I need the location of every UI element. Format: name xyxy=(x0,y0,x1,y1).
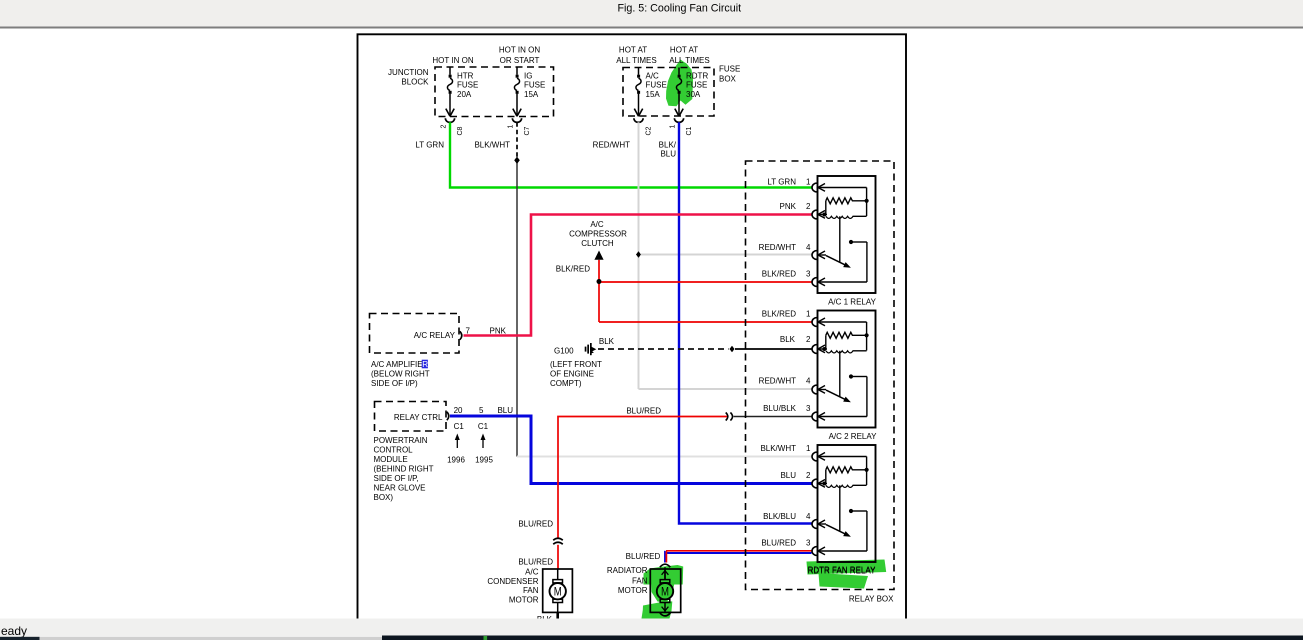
svg-text:MOTOR: MOTOR xyxy=(509,595,539,604)
svg-text:FUSE: FUSE xyxy=(719,65,740,74)
svg-text:BLU: BLU xyxy=(780,471,796,480)
svg-text:FAN: FAN xyxy=(632,577,648,586)
svg-text:C2: C2 xyxy=(645,126,652,135)
relay RDTR FAN xyxy=(812,445,876,562)
svg-text:RDTR FAN RELAY: RDTR FAN RELAY xyxy=(808,565,877,574)
relay box xyxy=(746,161,895,590)
wire BLK/WHT vertical xyxy=(516,163,518,457)
wire BLK/RED to A/C 1 relay pin 3 xyxy=(599,281,812,283)
svg-text:OR START: OR START xyxy=(500,56,540,65)
svg-text:RED/WHT: RED/WHT xyxy=(593,141,630,150)
svg-text:3: 3 xyxy=(806,539,811,548)
svg-text:1: 1 xyxy=(669,125,676,129)
svg-text:FUSE: FUSE xyxy=(646,81,667,90)
inline connector below radiator motor xyxy=(660,613,670,616)
svg-text:C1: C1 xyxy=(454,422,465,431)
label RED/WHT pin 4 xyxy=(759,243,811,252)
svg-text:OF ENGINE: OF ENGINE xyxy=(550,370,594,379)
year arrow 1995 xyxy=(481,434,486,449)
label HOT AT ALL TIMES (A/C fuse) xyxy=(616,46,656,66)
fuse label A/C 15A xyxy=(646,71,667,99)
svg-text:C1: C1 xyxy=(686,126,693,135)
splice diamond RED/WHT (top) xyxy=(636,251,641,257)
svg-text:BLU/BLK: BLU/BLK xyxy=(763,404,797,413)
svg-text:RED/WHT: RED/WHT xyxy=(759,243,796,252)
label BLK/RED pin 1 xyxy=(762,309,811,318)
svg-text:1: 1 xyxy=(806,177,811,186)
svg-text:4: 4 xyxy=(806,243,811,252)
radiator motor lead top xyxy=(664,567,666,579)
svg-text:FUSE: FUSE xyxy=(686,81,707,90)
svg-text:3: 3 xyxy=(806,269,811,278)
svg-text:(BEHIND RIGHT: (BEHIND RIGHT xyxy=(374,465,434,474)
svg-text:BLU: BLU xyxy=(660,150,676,159)
A/C condenser fan motor xyxy=(543,569,573,612)
label POWERTRAIN CONTROL MODULE xyxy=(374,436,434,502)
svg-text:30A: 30A xyxy=(686,90,701,99)
svg-text:BLU/RED: BLU/RED xyxy=(518,558,553,567)
svg-text:20A: 20A xyxy=(457,90,472,99)
label BLK/RED pin 3 xyxy=(762,269,811,278)
wire BLK solid to A/C 2 relay pin 2 xyxy=(735,348,812,350)
label LT GRN pin 1 xyxy=(767,177,811,186)
svg-text:HOT AT: HOT AT xyxy=(619,46,647,55)
splice dot BLK/RED xyxy=(597,279,602,284)
svg-text:BLK: BLK xyxy=(780,335,796,344)
label A/C CONDENSER FAN MOTOR xyxy=(487,568,538,605)
wire BLK/WHT dashed segment from IG fuse connector xyxy=(516,122,518,157)
svg-text:C1: C1 xyxy=(478,422,489,431)
svg-text:MOTOR: MOTOR xyxy=(618,586,648,595)
svg-text:3: 3 xyxy=(806,404,811,413)
svg-text:FAN: FAN xyxy=(523,586,539,595)
label BLU/RED pin 3 xyxy=(761,539,811,548)
svg-text:HOT IN ON: HOT IN ON xyxy=(499,46,540,55)
svg-text:RED/WHT: RED/WHT xyxy=(759,377,796,386)
svg-text:15A: 15A xyxy=(524,90,539,99)
wire RED/WHT to A/C 1 relay pin 4 xyxy=(639,254,812,256)
fuse HTR 20A xyxy=(445,68,454,123)
svg-text:COMPRESSOR: COMPRESSOR xyxy=(569,229,627,238)
svg-text:A/C AMPLIFIE: A/C AMPLIFIE xyxy=(371,360,423,369)
svg-text:BLK/RED: BLK/RED xyxy=(762,269,796,278)
label BLK/WHT pin 1 xyxy=(760,444,811,453)
svg-text:1: 1 xyxy=(806,309,811,318)
splice dot BLK/RED (top) xyxy=(597,279,602,284)
splice diamond on BLK/WHT xyxy=(514,157,519,164)
label RADIATOR FAN MOTOR xyxy=(607,566,648,595)
wire LT GRN from HTR fuse to A/C 1 relay pin 1 xyxy=(450,122,812,187)
svg-text:BLK/RED: BLK/RED xyxy=(556,265,590,274)
relay A/C 1 xyxy=(812,176,875,293)
label BLU pin 2 xyxy=(780,471,811,480)
svg-text:M: M xyxy=(554,586,562,598)
svg-text:ALL TIMES: ALL TIMES xyxy=(616,56,656,65)
svg-text:(LEFT FRONT: (LEFT FRONT xyxy=(550,360,602,369)
svg-text:15A: 15A xyxy=(646,90,661,99)
fuse label RDTR 30A xyxy=(686,71,708,99)
svg-text:HTR: HTR xyxy=(457,71,474,80)
svg-text:LT GRN: LT GRN xyxy=(767,177,796,186)
svg-text:(BELOW RIGHT: (BELOW RIGHT xyxy=(371,370,430,379)
svg-text:G100: G100 xyxy=(554,347,574,356)
svg-text:RELAY BOX: RELAY BOX xyxy=(849,595,894,604)
splice diamond BLK/WHT (top) xyxy=(514,157,519,164)
wire BLU from PCM relay ctrl xyxy=(450,416,812,484)
relay A/C 2 xyxy=(812,311,876,428)
label FUSE BOX xyxy=(719,65,740,84)
svg-text:LT GRN: LT GRN xyxy=(415,141,444,150)
svg-text:A/C: A/C xyxy=(590,220,604,229)
fuse label HTR 20A xyxy=(457,71,478,99)
svg-text:4: 4 xyxy=(806,512,811,521)
svg-text:eady: eady xyxy=(1,624,27,638)
wire BLU/RED into condenser motor xyxy=(557,545,559,570)
A/C relay xyxy=(370,314,462,354)
inline connector above radiator motor xyxy=(660,564,670,567)
inline connector on BLU/RED xyxy=(726,413,728,421)
svg-text:BLOCK: BLOCK xyxy=(401,77,429,86)
svg-text:JUNCTION: JUNCTION xyxy=(388,68,429,77)
svg-text:CONDENSER: CONDENSER xyxy=(487,577,538,586)
svg-text:BLK/BLU: BLK/BLU xyxy=(763,512,796,521)
svg-text:R: R xyxy=(422,360,428,369)
svg-text:RELAY CTRL: RELAY CTRL xyxy=(394,413,443,422)
svg-text:IG: IG xyxy=(524,71,532,80)
svg-text:7: 7 xyxy=(466,327,471,336)
svg-text:ALL TIMES: ALL TIMES xyxy=(669,56,709,65)
svg-text:2: 2 xyxy=(440,125,447,129)
svg-text:1995: 1995 xyxy=(475,456,493,465)
svg-text:NEAR GLOVE: NEAR GLOVE xyxy=(374,484,426,493)
wire BLK below condenser motor xyxy=(556,612,559,618)
splice diamond on RED/WHT xyxy=(636,251,641,257)
svg-text:4: 4 xyxy=(806,377,811,386)
svg-text:HOT IN ON: HOT IN ON xyxy=(432,56,473,65)
svg-text:COMPT): COMPT) xyxy=(550,379,582,388)
radiator fan motor xyxy=(650,569,680,612)
svg-text:BOX: BOX xyxy=(719,75,737,84)
fuse A/C 15A xyxy=(634,68,643,123)
fuse label IG 15A xyxy=(524,71,545,99)
junction block xyxy=(435,67,554,117)
wire BLU/RED pair to radiator fan motor xyxy=(666,550,812,552)
svg-text:CONTROL: CONTROL xyxy=(374,446,414,455)
ground G100 xyxy=(585,343,597,355)
wire BLK/RED from compressor clutch down xyxy=(598,260,600,322)
svg-text:A/C: A/C xyxy=(646,71,660,80)
svg-text:BLK/WHT: BLK/WHT xyxy=(760,444,796,453)
label HOT AT ALL TIMES (RDTR fuse) xyxy=(669,46,709,66)
svg-text:BLK/: BLK/ xyxy=(659,141,677,150)
svg-text:BLU/RED: BLU/RED xyxy=(626,552,661,561)
wire PNK from A/C relay to A/C 1 relay pin 2 xyxy=(464,215,812,336)
label A/C AMPLIFIER (BELOW RIGHT SIDE OF I/P) xyxy=(371,360,430,388)
svg-text:SIDE OF I/P,: SIDE OF I/P, xyxy=(374,474,419,483)
svg-text:2: 2 xyxy=(806,202,811,211)
label HOT IN ON OR START (IG) xyxy=(499,46,540,66)
label BLK/BLU xyxy=(659,141,677,159)
inline connector above condenser motor xyxy=(553,538,563,540)
splice diamond on BLK xyxy=(730,346,735,352)
svg-text:A/C 2 RELAY: A/C 2 RELAY xyxy=(829,432,878,441)
highlight over radiator fan motor xyxy=(644,565,684,585)
svg-text:M: M xyxy=(661,586,669,598)
fuse box xyxy=(623,68,714,117)
svg-text:20: 20 xyxy=(454,406,463,415)
svg-text:C8: C8 xyxy=(457,126,464,135)
fuse RDTR 30A xyxy=(674,68,683,123)
svg-text:SIDE OF I/P): SIDE OF I/P) xyxy=(371,379,418,388)
label BLU/BLK pin 3 xyxy=(763,404,811,413)
svg-text:POWERTRAIN: POWERTRAIN xyxy=(374,436,428,445)
PCM relay ctrl xyxy=(375,402,449,432)
svg-text:Fig. 5: Cooling Fan Circuit: Fig. 5: Cooling Fan Circuit xyxy=(618,2,742,14)
svg-text:A/C RELAY: A/C RELAY xyxy=(414,331,456,340)
svg-text:FUSE: FUSE xyxy=(457,81,478,90)
svg-text:BOX): BOX) xyxy=(374,493,394,502)
highlight over RDTR fuse xyxy=(666,60,693,107)
wire BLU/RED red segment to condenser motor xyxy=(558,417,727,538)
wire BLK/BLU vertical from RDTR fuse xyxy=(679,122,812,523)
page frame xyxy=(358,34,907,634)
wire BLK/RED to A/C 2 relay pin 1 xyxy=(599,321,812,323)
wire BLK/WHT horizontal to RDTR fan relay pin 1 xyxy=(517,456,812,458)
svg-text:BLK/WHT: BLK/WHT xyxy=(474,141,510,150)
svg-text:BLU/RED: BLU/RED xyxy=(761,539,796,548)
svg-text:BLU: BLU xyxy=(497,406,513,415)
status bar xyxy=(0,619,1303,639)
wire BLU/RED from A/C 2 relay pin 3 to connector xyxy=(734,416,812,418)
wire BLK dashed from G100 xyxy=(598,348,729,350)
svg-text:BLU/RED: BLU/RED xyxy=(626,406,661,415)
label PNK pin 2 xyxy=(780,202,812,211)
svg-text:1: 1 xyxy=(507,125,514,129)
svg-text:PNK: PNK xyxy=(780,202,797,211)
splice diamond BLK (top) xyxy=(730,346,735,352)
svg-text:HOT AT: HOT AT xyxy=(670,46,698,55)
svg-text:PNK: PNK xyxy=(490,327,507,336)
svg-text:2: 2 xyxy=(806,471,811,480)
svg-text:RADIATOR: RADIATOR xyxy=(607,566,648,575)
svg-text:2: 2 xyxy=(806,335,811,344)
wire RED/WHT to A/C 2 relay pin 4 xyxy=(639,388,812,390)
highlight over RDTR FAN RELAY label xyxy=(807,560,887,575)
svg-text:BLU/RED: BLU/RED xyxy=(518,520,553,529)
svg-text:1996: 1996 xyxy=(447,456,465,465)
label G100 (LEFT FRONT OF ENGINE COMPT) xyxy=(550,347,602,389)
fuse IG 15A xyxy=(512,68,521,123)
title bar xyxy=(0,0,1303,28)
svg-text:A/C 1 RELAY: A/C 1 RELAY xyxy=(828,297,877,306)
svg-text:5: 5 xyxy=(479,406,484,415)
wire RED/WHT vertical from A/C fuse xyxy=(638,122,640,389)
svg-text:RDTR: RDTR xyxy=(686,71,708,80)
label BLK/BLU pin 4 xyxy=(763,512,811,521)
svg-text:A/C: A/C xyxy=(525,568,539,577)
taskbar strip xyxy=(0,636,1303,640)
svg-text:CLUTCH: CLUTCH xyxy=(581,239,614,248)
label JUNCTION BLOCK xyxy=(388,68,429,86)
label RED/WHT pin 4 xyxy=(759,377,811,386)
A/C compressor clutch xyxy=(569,220,627,260)
svg-text:1: 1 xyxy=(806,444,811,453)
svg-text:MODULE: MODULE xyxy=(374,455,408,464)
year arrow 1996 xyxy=(455,434,460,449)
svg-text:C7: C7 xyxy=(524,126,531,135)
svg-text:BLK: BLK xyxy=(599,337,615,346)
svg-text:FUSE: FUSE xyxy=(524,81,545,90)
svg-text:BLK/RED: BLK/RED xyxy=(762,309,796,318)
